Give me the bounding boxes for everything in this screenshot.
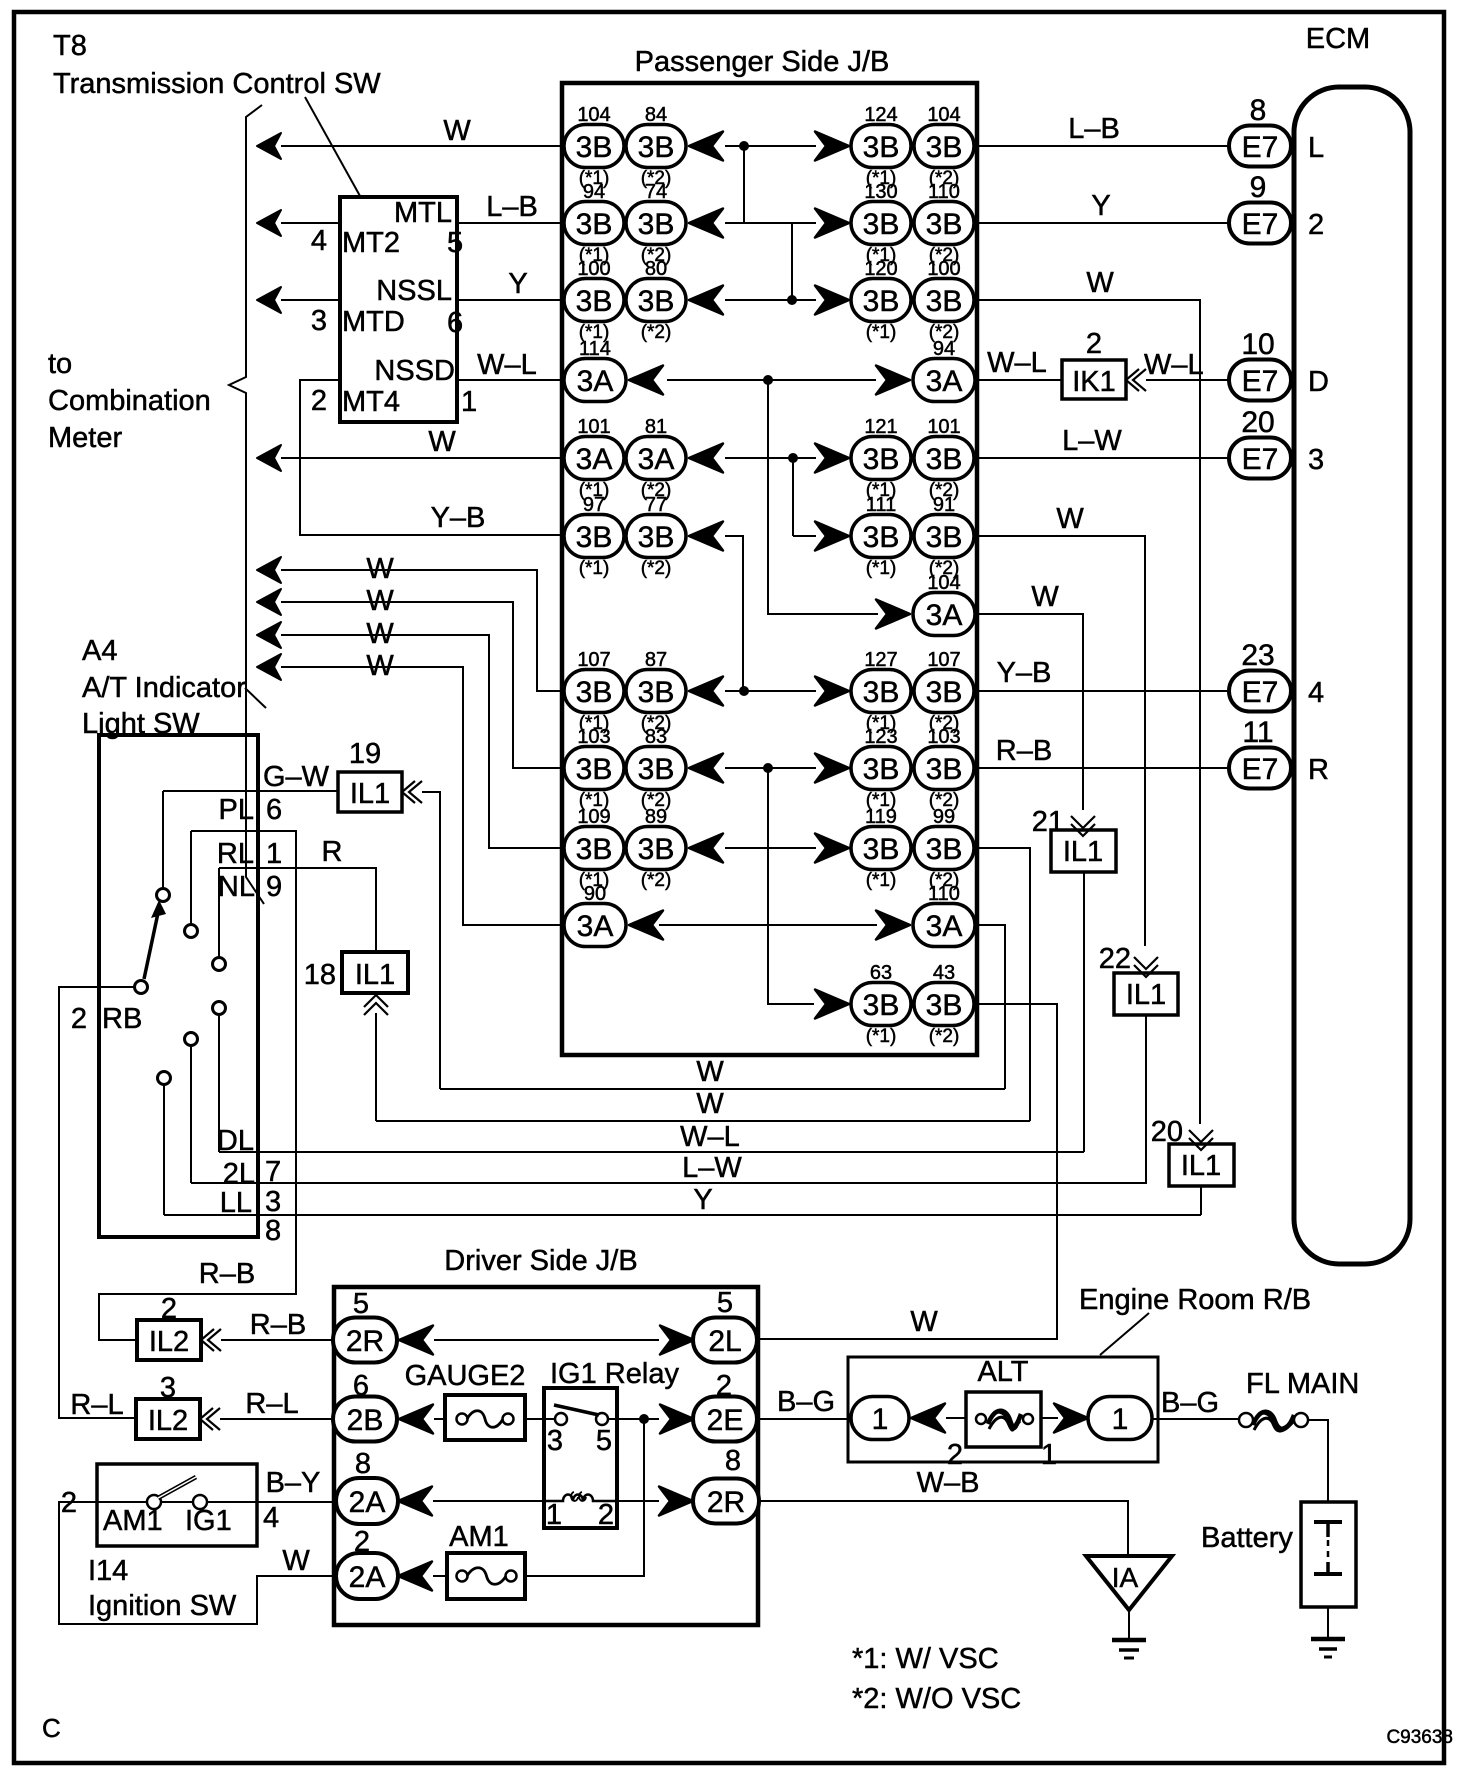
- svg-text:94: 94: [583, 181, 605, 203]
- wire battery to ground: [1327, 1607, 1329, 1639]
- svg-text:L–B: L–B: [486, 191, 538, 223]
- P-JB row 4 connectors: [564, 338, 975, 402]
- svg-text:121: 121: [864, 416, 897, 438]
- svg-text:IL1: IL1: [1063, 836, 1103, 868]
- svg-text:104: 104: [577, 104, 610, 126]
- connector E7 pin 23 / ECM 4: [1229, 639, 1324, 712]
- wire R-L IL2-3 to 2B: [220, 1418, 334, 1420]
- svg-text:8: 8: [265, 1215, 281, 1247]
- svg-text:3A: 3A: [926, 599, 963, 632]
- brace to combination meter: [229, 105, 264, 904]
- svg-text:3A: 3A: [926, 365, 963, 398]
- svg-text:103: 103: [577, 726, 610, 748]
- svg-text:3B: 3B: [638, 521, 675, 554]
- svg-text:R–B: R–B: [250, 1309, 306, 1341]
- svg-text:GAUGE2: GAUGE2: [405, 1360, 526, 1392]
- svg-text:(*1): (*1): [866, 870, 897, 891]
- svg-text:Passenger Side J/B: Passenger Side J/B: [635, 46, 890, 78]
- svg-text:W: W: [1056, 503, 1084, 535]
- svg-text:1: 1: [266, 838, 282, 870]
- Engine Room R/B box: [848, 1357, 1158, 1462]
- svg-text:123: 123: [864, 726, 897, 748]
- IG1 relay contacts 3 and 5: [544, 1418, 556, 1420]
- svg-text:101: 101: [577, 416, 610, 438]
- wire B-G to FL MAIN: [1152, 1418, 1239, 1420]
- wire AM1 branch up to 2E junction: [525, 1419, 644, 1576]
- svg-text:2R: 2R: [346, 1325, 384, 1358]
- svg-text:130: 130: [864, 181, 897, 203]
- svg-text:120: 120: [864, 258, 897, 280]
- svg-text:84: 84: [645, 104, 667, 126]
- svg-text:3B: 3B: [863, 208, 900, 241]
- svg-text:A/T Indicator: A/T Indicator: [82, 672, 246, 704]
- wire MT4 pin2 to Y-B: [300, 380, 564, 535]
- wire GAUGE2 to IG1 relay: [525, 1418, 544, 1420]
- svg-text:104: 104: [927, 104, 960, 126]
- svg-text:3B: 3B: [638, 676, 675, 709]
- svg-text:Engine Room R/B: Engine Room R/B: [1079, 1284, 1311, 1316]
- wire IL1-22 to L-W line: [1145, 1015, 1147, 1183]
- svg-text:3B: 3B: [926, 208, 963, 241]
- wire row8 internal with junction: [725, 690, 816, 692]
- wire W row10 long line: [376, 1120, 1030, 1122]
- svg-text:(*2): (*2): [641, 322, 672, 343]
- svg-text:3B: 3B: [576, 521, 613, 554]
- ground IA bars: [1112, 1638, 1146, 1643]
- wire to ALT fuse: [946, 1417, 966, 1419]
- wire row10 internal: [725, 847, 816, 849]
- wire L-W long line: [191, 1182, 1147, 1184]
- svg-text:3A: 3A: [577, 365, 614, 398]
- A4 contact PL: [157, 889, 170, 902]
- svg-text:5: 5: [353, 1288, 369, 1320]
- svg-text:63: 63: [870, 962, 892, 984]
- svg-text:22: 22: [1099, 943, 1131, 975]
- svg-text:114: 114: [579, 338, 611, 360]
- svg-text:3A: 3A: [638, 443, 675, 476]
- wire R-L RB pin to IL2-3: [59, 987, 136, 1418]
- svg-text:IL1: IL1: [350, 778, 390, 810]
- svg-text:E7: E7: [1242, 131, 1279, 164]
- svg-text:W: W: [428, 426, 456, 458]
- svg-text:L: L: [1308, 132, 1324, 164]
- svg-text:Y: Y: [1091, 190, 1110, 222]
- svg-text:Battery: Battery: [1201, 1522, 1293, 1554]
- svg-text:124: 124: [864, 104, 897, 126]
- wire IL1-20 to Y line: [1200, 1186, 1202, 1215]
- Driver Side J/B box: [334, 1287, 758, 1625]
- svg-text:107: 107: [927, 649, 960, 671]
- svg-text:Meter: Meter: [48, 422, 122, 454]
- svg-text:AM1: AM1: [103, 1505, 163, 1537]
- IG1 relay coil: [544, 1495, 617, 1502]
- svg-text:2B: 2B: [347, 1404, 384, 1437]
- P-JB row 3 connectors: [564, 258, 974, 343]
- wire W row10 to W2 line: [976, 848, 1030, 1121]
- wire row3 internal with junction: [725, 299, 816, 301]
- svg-text:W–L: W–L: [1144, 349, 1204, 381]
- I14 contact AM1: [147, 1495, 161, 1509]
- svg-text:23: 23: [1241, 639, 1274, 672]
- svg-text:9: 9: [266, 871, 282, 903]
- svg-text:PL: PL: [219, 794, 254, 826]
- P-JB row 11 connectors: [564, 883, 975, 947]
- svg-text:3B: 3B: [638, 833, 675, 866]
- svg-text:7: 7: [265, 1156, 281, 1188]
- wire W-L IK1 to E7-10: [1146, 379, 1229, 381]
- svg-text:100: 100: [927, 258, 960, 280]
- wire W arrow2 to row9: [257, 589, 281, 615]
- svg-text:1: 1: [546, 1499, 562, 1531]
- svg-text:3B: 3B: [576, 285, 613, 318]
- svg-text:6: 6: [266, 794, 282, 826]
- A4 switch box: [99, 735, 258, 1237]
- svg-text:99: 99: [933, 806, 955, 828]
- P-JB row 12 connectors: [815, 962, 974, 1047]
- wire W-L NSSD1 to J/B: [457, 379, 564, 381]
- svg-text:74: 74: [645, 181, 667, 203]
- wire Y row3 meter to MTD: [257, 287, 281, 313]
- svg-text:E7: E7: [1242, 208, 1279, 241]
- A4 contact 2L: [185, 1033, 198, 1046]
- wire row6 internal left: [725, 536, 743, 691]
- wire R-B RL to IL2-2: [99, 831, 296, 1340]
- svg-text:R: R: [322, 836, 343, 868]
- P-JB row 6 connectors: [564, 494, 974, 579]
- svg-text:3B: 3B: [576, 676, 613, 709]
- svg-text:2L: 2L: [223, 1158, 255, 1190]
- wire IL1-18 to W2 line: [375, 1013, 377, 1121]
- svg-text:W–L: W–L: [987, 347, 1047, 379]
- svg-text:NL: NL: [218, 871, 255, 903]
- svg-text:W–L: W–L: [477, 349, 537, 381]
- svg-text:10: 10: [1241, 328, 1274, 361]
- wire row4 junction down to row7: [768, 380, 878, 614]
- wire row1 internal with junction: [725, 145, 816, 147]
- P-JB row 2 connectors: [564, 181, 974, 266]
- ground triangle IA: [1086, 1556, 1172, 1610]
- svg-text:NSSL: NSSL: [376, 275, 452, 307]
- svg-text:T8: T8: [53, 30, 87, 62]
- svg-text:77: 77: [645, 494, 667, 516]
- svg-text:R–B: R–B: [996, 735, 1052, 767]
- svg-text:111: 111: [866, 494, 896, 516]
- svg-text:103: 103: [927, 726, 960, 748]
- svg-text:97: 97: [583, 494, 605, 516]
- svg-text:87: 87: [645, 649, 667, 671]
- svg-text:(*1): (*1): [866, 1026, 897, 1047]
- A4 contact LL: [158, 1072, 171, 1085]
- svg-text:21: 21: [1032, 806, 1064, 838]
- svg-text:3B: 3B: [576, 833, 613, 866]
- wire ALT to right 1: [1041, 1417, 1058, 1419]
- svg-text:MTL: MTL: [394, 197, 452, 229]
- svg-text:19: 19: [349, 738, 381, 770]
- svg-text:2: 2: [598, 1499, 614, 1531]
- svg-text:127: 127: [864, 649, 897, 671]
- connector E7 pin 8 / ECM L: [1229, 94, 1324, 167]
- svg-text:3B: 3B: [576, 208, 613, 241]
- svg-text:3B: 3B: [926, 989, 963, 1022]
- svg-text:5: 5: [717, 1287, 733, 1319]
- svg-text:83: 83: [645, 726, 667, 748]
- svg-text:IG1 Relay: IG1 Relay: [550, 1358, 679, 1390]
- svg-text:3B: 3B: [863, 833, 900, 866]
- svg-text:3B: 3B: [926, 753, 963, 786]
- svg-text:109: 109: [577, 806, 610, 828]
- svg-text:8: 8: [355, 1448, 371, 1480]
- wire L-B row1 to E7-8: [975, 145, 1229, 147]
- svg-text:W: W: [366, 585, 394, 617]
- svg-text:2E: 2E: [707, 1404, 744, 1437]
- svg-text:IK1: IK1: [1072, 366, 1116, 398]
- svg-text:W–L: W–L: [680, 1121, 740, 1153]
- svg-text:5: 5: [447, 227, 463, 259]
- svg-text:1: 1: [461, 386, 477, 418]
- svg-text:91: 91: [933, 494, 955, 516]
- leader A4 label: [245, 688, 266, 708]
- svg-text:G–W: G–W: [263, 761, 330, 793]
- svg-text:IG1: IG1: [185, 1505, 232, 1537]
- I14 switch blade: [158, 1477, 196, 1498]
- P-JB row 9 connectors: [564, 726, 974, 811]
- svg-text:18: 18: [304, 959, 336, 991]
- svg-text:Transmission Control SW: Transmission Control SW: [53, 68, 381, 100]
- wire row11 to W1 line: [976, 925, 1005, 1089]
- wire IL1-21 to W-L line: [1083, 872, 1085, 1152]
- wire R-B row9 to E7-11: [975, 767, 1229, 769]
- ECM box: [1294, 87, 1410, 1264]
- svg-text:W: W: [910, 1306, 938, 1338]
- svg-text:IL1: IL1: [1181, 1150, 1221, 1182]
- svg-text:IL2: IL2: [149, 1326, 189, 1358]
- wire coil row to 2R pin 8: [617, 1500, 659, 1502]
- svg-text:to: to: [48, 348, 72, 380]
- svg-text:DL: DL: [217, 1125, 254, 1157]
- svg-text:3B: 3B: [638, 753, 675, 786]
- wire R-B IL2-2 to 2R: [221, 1339, 334, 1341]
- svg-text:ALT: ALT: [977, 1356, 1028, 1388]
- connector 1 (left): [851, 1397, 909, 1440]
- wire W row3 to IL1-20: [975, 300, 1200, 1124]
- P-JB row 7 connectors: [876, 572, 975, 636]
- svg-text:2R: 2R: [707, 1486, 745, 1519]
- svg-text:80: 80: [645, 258, 667, 280]
- wire W-B 2R8 to ground IA: [759, 1501, 1128, 1554]
- svg-text:IL1: IL1: [1126, 979, 1166, 1011]
- svg-text:3: 3: [265, 1186, 281, 1218]
- svg-text:3B: 3B: [638, 131, 675, 164]
- wire W row7 to IL1-21: [976, 614, 1083, 810]
- svg-text:4: 4: [1308, 677, 1324, 709]
- svg-text:3B: 3B: [863, 676, 900, 709]
- wire 2A2 to AM1: [433, 1575, 447, 1577]
- A4 contact RL: [185, 925, 198, 938]
- wire 2B to GAUGE2: [434, 1418, 445, 1420]
- svg-text:W: W: [696, 1056, 724, 1088]
- svg-text:1: 1: [1112, 1403, 1129, 1436]
- svg-text:100: 100: [577, 258, 610, 280]
- wire row9 internal with junction: [725, 767, 816, 769]
- svg-text:1: 1: [872, 1403, 889, 1436]
- Passenger Side J/B box: [562, 83, 977, 1055]
- connector E7 pin 11 / ECM R: [1229, 716, 1329, 789]
- svg-text:C: C: [42, 1713, 61, 1743]
- svg-text:MT4: MT4: [342, 386, 400, 418]
- svg-text:E7: E7: [1242, 676, 1279, 709]
- svg-text:107: 107: [577, 649, 610, 671]
- svg-text:43: 43: [933, 962, 955, 984]
- wire relay out junction to 2E: [617, 1418, 659, 1420]
- svg-text:D: D: [1308, 366, 1329, 398]
- svg-text:*1: W/ VSC: *1: W/ VSC: [852, 1643, 999, 1675]
- svg-text:3B: 3B: [638, 285, 675, 318]
- svg-text:W: W: [366, 650, 394, 682]
- svg-text:Y: Y: [508, 268, 527, 300]
- svg-text:2: 2: [1308, 209, 1324, 241]
- wire W row6 to IL1-22: [975, 536, 1145, 946]
- svg-text:MT2: MT2: [342, 227, 400, 259]
- svg-text:MTD: MTD: [342, 306, 405, 338]
- svg-text:R–B: R–B: [199, 1258, 255, 1290]
- svg-text:101: 101: [927, 416, 960, 438]
- svg-text:W: W: [366, 553, 394, 585]
- svg-text:2: 2: [1086, 328, 1102, 360]
- svg-text:9: 9: [1250, 171, 1267, 204]
- svg-text:RB: RB: [102, 1003, 142, 1035]
- A4 contact NL: [213, 958, 226, 971]
- svg-text:3B: 3B: [576, 131, 613, 164]
- svg-text:3A: 3A: [576, 443, 613, 476]
- svg-text:LL: LL: [220, 1187, 252, 1219]
- wire G-W PL to IL1-19: [163, 790, 338, 792]
- wire FL MAIN to battery: [1308, 1420, 1328, 1502]
- svg-text:Y–B: Y–B: [431, 502, 486, 534]
- connector E7 pin 20 / ECM 3: [1229, 406, 1324, 479]
- svg-text:(*2): (*2): [641, 558, 672, 579]
- svg-text:3: 3: [1308, 444, 1324, 476]
- svg-text:Y–B: Y–B: [997, 657, 1052, 689]
- svg-text:94: 94: [933, 338, 955, 360]
- svg-text:20: 20: [1241, 406, 1274, 439]
- svg-text:W–B: W–B: [917, 1467, 980, 1499]
- connector 1 (right): [1054, 1404, 1088, 1433]
- wire W row1 to combination meter: [257, 133, 281, 159]
- svg-text:3: 3: [311, 305, 327, 337]
- svg-text:R–L: R–L: [70, 1389, 123, 1421]
- wire Y row2 to E7-9: [975, 222, 1229, 224]
- wire L-B MTL5 to J/B: [457, 222, 564, 224]
- connector E7 pin 9 / ECM 2: [1229, 171, 1324, 244]
- wire W row11 long line: [440, 1088, 1005, 1090]
- connector box MT (T8): [340, 197, 457, 422]
- svg-text:119: 119: [865, 806, 897, 828]
- wire row5 internal with junction: [725, 457, 816, 459]
- svg-text:L–W: L–W: [1062, 425, 1122, 457]
- svg-text:B–Y: B–Y: [266, 1467, 321, 1499]
- svg-text:4: 4: [311, 225, 327, 257]
- A4 moving contact RB: [135, 981, 148, 994]
- svg-text:3B: 3B: [576, 753, 613, 786]
- svg-text:6: 6: [447, 307, 463, 339]
- wire L-W row5 to E7-20: [975, 457, 1229, 459]
- svg-text:3B: 3B: [863, 443, 900, 476]
- svg-text:(*1): (*1): [866, 322, 897, 343]
- svg-text:B–G: B–G: [1161, 1387, 1219, 1419]
- svg-text:2A: 2A: [349, 1486, 386, 1519]
- wire Y-B row8 to E7-23: [975, 690, 1229, 692]
- svg-text:L–B: L–B: [1068, 113, 1120, 145]
- svg-text:3A: 3A: [577, 910, 614, 943]
- P-JB row 1 connectors: [564, 104, 974, 189]
- svg-text:W: W: [443, 115, 471, 147]
- svg-text:2: 2: [71, 1003, 87, 1035]
- wire W I14 pin2 to 2A2: [59, 1502, 336, 1624]
- svg-text:Driver Side J/B: Driver Side J/B: [444, 1245, 637, 1277]
- wire IL1-19 to W1 line: [422, 792, 440, 1089]
- ground battery: [1311, 1637, 1345, 1642]
- wire row4 internal with junction: [667, 379, 876, 381]
- wire W arrow3 to row10: [257, 622, 281, 648]
- wire W row12 to 2L: [759, 1004, 1057, 1339]
- svg-text:11: 11: [1242, 716, 1273, 749]
- svg-text:3: 3: [547, 1425, 563, 1457]
- svg-text:(*1): (*1): [579, 558, 610, 579]
- wire W arrow1 to row8: [257, 557, 281, 583]
- svg-text:3A: 3A: [926, 910, 963, 943]
- wire W row5 to meter: [257, 445, 281, 471]
- svg-text:(*2): (*2): [929, 1026, 960, 1047]
- svg-text:Y: Y: [693, 1184, 712, 1216]
- svg-text:3B: 3B: [863, 989, 900, 1022]
- svg-text:FL MAIN: FL MAIN: [1246, 1368, 1359, 1400]
- svg-text:5: 5: [596, 1425, 612, 1457]
- svg-text:R–L: R–L: [245, 1388, 298, 1420]
- wire W-L row4 to IK1: [976, 379, 1062, 381]
- wire 2A8 to relay coil: [433, 1500, 544, 1502]
- svg-text:3B: 3B: [926, 443, 963, 476]
- svg-text:RL: RL: [217, 838, 254, 870]
- svg-text:Ignition SW: Ignition SW: [88, 1590, 237, 1622]
- leader Engine Room R/B: [1100, 1313, 1149, 1355]
- wire Y NSSL6 to J/B: [457, 299, 564, 301]
- svg-text:C93638: C93638: [1386, 1727, 1453, 1748]
- connector E7 pin 10 / ECM D: [1229, 328, 1329, 401]
- wire row9 junction down to row12: [768, 768, 814, 1004]
- svg-text:B–G: B–G: [777, 1386, 835, 1418]
- svg-text:2: 2: [311, 385, 327, 417]
- svg-text:3B: 3B: [926, 285, 963, 318]
- svg-text:2L: 2L: [708, 1325, 741, 1358]
- wire row2 internal: [725, 222, 816, 224]
- leader line T8 to MT box: [305, 97, 360, 196]
- svg-text:IL1: IL1: [355, 959, 395, 991]
- svg-text:NSSD: NSSD: [374, 355, 455, 387]
- svg-text:2A: 2A: [349, 1561, 386, 1594]
- svg-text:W: W: [696, 1088, 724, 1120]
- svg-text:4: 4: [263, 1502, 279, 1534]
- svg-text:8: 8: [1250, 94, 1267, 127]
- svg-text:3B: 3B: [863, 285, 900, 318]
- svg-text:104: 104: [927, 572, 960, 594]
- svg-text:3B: 3B: [863, 521, 900, 554]
- svg-text:1: 1: [1041, 1439, 1057, 1471]
- svg-text:W: W: [366, 618, 394, 650]
- wire B-G 2E to Engine Room R/B: [759, 1418, 851, 1420]
- svg-text:L–W: L–W: [682, 1152, 742, 1184]
- svg-text:89: 89: [645, 806, 667, 828]
- pin 4 B-Y wire to 2A8: [97, 1501, 147, 1503]
